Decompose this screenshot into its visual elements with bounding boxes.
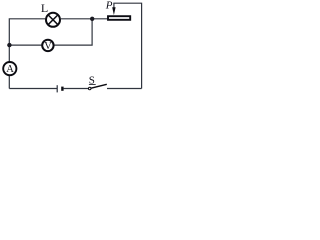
svg-text:P: P [105, 0, 113, 12]
svg-text:V: V [44, 41, 52, 52]
svg-text:A: A [6, 64, 14, 75]
svg-text:L: L [41, 1, 48, 15]
